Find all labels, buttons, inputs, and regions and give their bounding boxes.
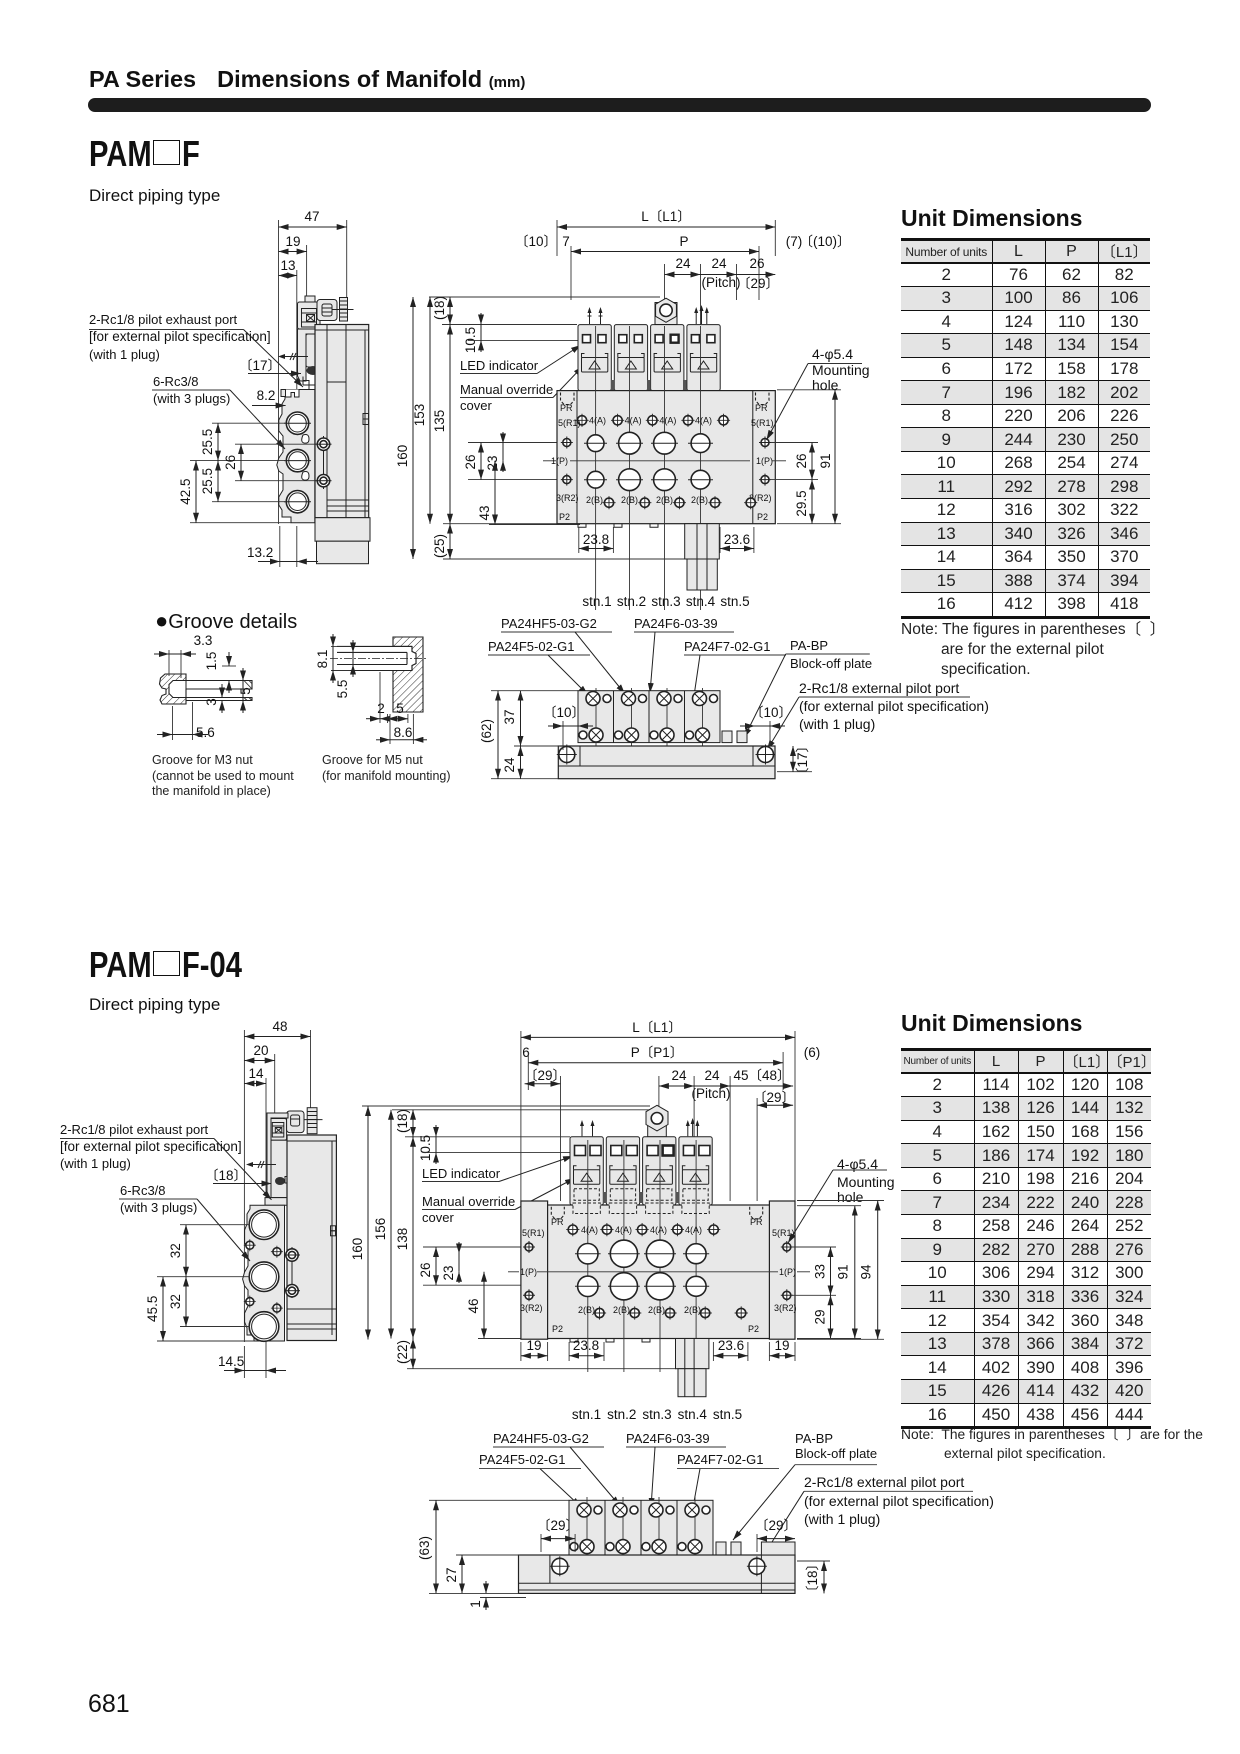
svg-text:4-φ5.4: 4-φ5.4 [812, 346, 853, 362]
svg-text:stn.2: stn.2 [617, 594, 646, 609]
svg-text:94: 94 [859, 1264, 874, 1280]
svg-text:1: 1 [468, 1600, 483, 1608]
svg-text:43: 43 [477, 505, 492, 520]
svg-text:1(P): 1(P) [779, 1267, 796, 1277]
endplate pilot holes top [525, 1243, 533, 1251]
svg-text:23: 23 [441, 1265, 456, 1280]
svg-text:19: 19 [285, 234, 300, 249]
svg-text:156: 156 [373, 1218, 388, 1241]
construction line x297 [296, 270, 298, 390]
svg-text:5(R1): 5(R1) [772, 1228, 795, 1238]
svg-text:Block-off plate: Block-off plate [790, 656, 872, 671]
dim 45.5 [162, 1277, 164, 1341]
svg-text:2-Rc1/8 pilot exhaust port: 2-Rc1/8 pilot exhaust port [89, 312, 238, 327]
svg-text:4(A): 4(A) [659, 416, 676, 426]
svg-text:160: 160 [350, 1238, 365, 1261]
svg-text:3(R2): 3(R2) [556, 493, 579, 503]
svg-text:32: 32 [168, 1294, 183, 1309]
svg-text:4(A): 4(A) [685, 1225, 702, 1235]
svg-text:47: 47 [304, 209, 319, 224]
right dim 91 [797, 1205, 861, 1207]
bottom tab (P2 stub) [676, 1339, 709, 1369]
svg-text:42.5: 42.5 [178, 478, 193, 504]
Unit Dimensions title 2 [901, 1010, 1082, 1037]
svg-text:5.5: 5.5 [335, 680, 350, 699]
svg-text:32: 32 [168, 1243, 183, 1258]
right dim 26 [771, 442, 818, 444]
svg-text:[for external pilot specificat: [for external pilot specification] [89, 329, 271, 344]
svg-text:PA24F5-02-G1: PA24F5-02-G1 [479, 1452, 565, 1467]
bottom small tabs on manifold underside [578, 524, 658, 528]
svg-text:2(B): 2(B) [621, 495, 638, 505]
svg-text:45〔48〕: 45〔48〕 [733, 1068, 790, 1083]
PR pockets [551, 1207, 564, 1219]
top screw row [568, 1225, 718, 1234]
svg-text:P2: P2 [748, 1324, 759, 1334]
solenoid cable gland [317, 300, 337, 321]
M5 bolt strips [337, 646, 412, 670]
gland threaded knob [307, 1108, 317, 1134]
svg-text:7: 7 [562, 234, 570, 249]
base rail [558, 746, 775, 779]
gland threaded knob [340, 298, 348, 322]
body screws [323, 436, 325, 489]
svg-text:4(A): 4(A) [695, 416, 712, 426]
bottom screw row [595, 1308, 746, 1317]
svg-text:stn.5: stn.5 [713, 1407, 742, 1422]
station screws top [586, 692, 718, 706]
manifold body [548, 1205, 770, 1339]
section 2 heading PAM□F-04 [89, 944, 256, 986]
svg-text:19: 19 [526, 1338, 541, 1353]
svg-text:5(R1): 5(R1) [558, 418, 581, 428]
svg-text:13.2: 13.2 [247, 545, 273, 560]
rail mount holes [552, 1558, 568, 1574]
port circle 2 [286, 449, 308, 471]
gland center line [304, 1119, 323, 1121]
valve unit 2 [606, 1137, 639, 1205]
inter-unit connector pins [603, 1192, 607, 1203]
svg-text:(18): (18) [395, 1109, 410, 1133]
svg-text:160: 160 [395, 445, 410, 468]
M5 groove: wall with hatch [393, 637, 423, 712]
station screws top [577, 1503, 710, 1517]
bottom tab (P2 stub) [685, 524, 720, 559]
svg-text:5: 5 [238, 687, 253, 695]
svg-text:33: 33 [813, 1264, 828, 1279]
main valve body [287, 1135, 336, 1341]
svg-text:(62): (62) [479, 719, 494, 743]
solenoid cable gland [287, 1111, 304, 1133]
svg-text:P2: P2 [757, 512, 768, 522]
svg-text:(63): (63) [417, 1536, 432, 1560]
svg-text:〔29〕: 〔29〕 [737, 276, 779, 291]
svg-text:48: 48 [272, 1019, 287, 1034]
svg-text:stn.3: stn.3 [642, 1407, 671, 1422]
svg-text:4(A): 4(A) [650, 1225, 667, 1235]
svg-text:23.8: 23.8 [573, 1338, 599, 1353]
body right clips [363, 414, 369, 420]
svg-text:29: 29 [813, 1309, 828, 1324]
svg-text:Manual override: Manual override [460, 382, 553, 397]
station centerlines [586, 1497, 588, 1558]
svg-text:stn.1: stn.1 [572, 1407, 601, 1422]
solenoid DIN connector block [305, 296, 315, 302]
svg-text:4(A): 4(A) [615, 1225, 632, 1235]
svg-text:PA24HF5-03-G2: PA24HF5-03-G2 [493, 1431, 589, 1446]
hex nut pedestal [648, 1124, 667, 1137]
svg-text:24: 24 [704, 1068, 720, 1083]
svg-text:PA24F7-02-G1: PA24F7-02-G1 [677, 1452, 763, 1467]
port circles top row [578, 1244, 598, 1264]
svg-text:23.8: 23.8 [583, 532, 609, 547]
svg-text:2(B): 2(B) [656, 495, 673, 505]
section 1 heading PAM□F [89, 133, 204, 175]
svg-text:stn.4: stn.4 [678, 1407, 708, 1422]
svg-text:stn.5: stn.5 [720, 594, 749, 609]
hex nut [656, 298, 677, 322]
block-off tabs [722, 731, 732, 743]
station centerlines [587, 1140, 589, 1372]
svg-text:45.5: 45.5 [145, 1296, 160, 1322]
left endplate [576, 391, 578, 524]
svg-text:23.6: 23.6 [718, 1338, 744, 1353]
svg-text:23.6: 23.6 [724, 532, 750, 547]
svg-text:1(P): 1(P) [551, 456, 568, 466]
svg-text:2(B): 2(B) [578, 1305, 595, 1315]
teardrop blobs [302, 435, 309, 444]
valve unit 1 [570, 1137, 603, 1205]
valve block [569, 1500, 713, 1555]
svg-text:LED indicator: LED indicator [422, 1166, 501, 1181]
svg-text:25.5: 25.5 [200, 468, 215, 494]
dim 25.5 bottom [217, 461, 219, 502]
mounting plate [267, 1113, 288, 1198]
svg-text:2(B): 2(B) [684, 1305, 701, 1315]
port circle 2 [249, 1262, 279, 1292]
svg-text:〔17〕: 〔17〕 [795, 739, 810, 781]
construction line x346.7 [346, 220, 348, 297]
construction line left [278, 220, 280, 524]
svg-text:3: 3 [204, 698, 219, 706]
manifold small screws [246, 1241, 281, 1312]
svg-text:〔10〕: 〔10〕 [750, 705, 792, 720]
svg-text:PA24F6-03-39: PA24F6-03-39 [626, 1431, 710, 1446]
svg-text:Block-off plate: Block-off plate [795, 1446, 877, 1461]
valve unit 2 [614, 325, 647, 404]
hex nut pedestal [655, 303, 677, 325]
svg-text:135: 135 [432, 410, 447, 433]
svg-text:Mounting: Mounting [837, 1174, 895, 1190]
svg-text:hole: hole [837, 1189, 864, 1205]
valve unit 4 [687, 325, 720, 404]
svg-text:PR: PR [755, 403, 768, 413]
station centerlines [595, 326, 597, 610]
rail mount holes [559, 747, 575, 763]
svg-text:stn.1: stn.1 [582, 594, 611, 609]
svg-text:PR: PR [750, 1217, 763, 1227]
table 1 [901, 238, 1150, 619]
svg-text:6-Rc3/8: 6-Rc3/8 [120, 1183, 166, 1198]
hex nut [646, 1105, 668, 1131]
port circle 3 [249, 1312, 279, 1342]
dim 42.5 [195, 461, 197, 523]
svg-text:2-Rc1/8 pilot exhaust port: 2-Rc1/8 pilot exhaust port [60, 1122, 209, 1137]
station screws bottom [579, 728, 710, 742]
svg-text:〔10〕: 〔10〕 [515, 234, 557, 249]
bottom screw row [604, 498, 755, 507]
body right clips [331, 1226, 336, 1231]
svg-text:25.5: 25.5 [200, 429, 215, 455]
svg-text:〔29〕: 〔29〕 [524, 1068, 566, 1083]
port circle 1 [249, 1210, 279, 1240]
manifold body [557, 391, 775, 524]
svg-text:(for external pilot specificat: (for external pilot specification) [804, 1493, 994, 1509]
svg-text:24: 24 [502, 757, 517, 773]
pilot valve body [306, 334, 327, 367]
pilot exhaust arrow [285, 353, 308, 360]
svg-text:27: 27 [444, 1567, 459, 1582]
svg-text:stn.3: stn.3 [651, 594, 680, 609]
svg-text:(18): (18) [432, 296, 447, 320]
black header bar [88, 98, 1151, 112]
bottom tab [315, 518, 370, 542]
svg-text:3(R2): 3(R2) [520, 1303, 543, 1313]
svg-text:〔29〕: 〔29〕 [755, 1518, 797, 1533]
gland center line [332, 309, 354, 311]
svg-text:2(B): 2(B) [648, 1305, 665, 1315]
svg-text:14.5: 14.5 [218, 1354, 244, 1369]
svg-text:23: 23 [485, 455, 500, 470]
svg-text:2: 2 [377, 701, 385, 716]
construction lines [243, 1030, 245, 1342]
svg-text:2(B): 2(B) [586, 495, 603, 505]
svg-text:4(A): 4(A) [625, 416, 642, 426]
svg-text:5: 5 [396, 701, 404, 716]
svg-text:8.1: 8.1 [315, 650, 330, 669]
M5 center line [330, 658, 428, 660]
svg-text:5(R1): 5(R1) [522, 1228, 545, 1238]
port circle 3 [286, 491, 308, 513]
station screws bottom [570, 1540, 702, 1554]
M3 strip hatch right ends [244, 681, 252, 701]
svg-text:(with 3 plugs): (with 3 plugs) [153, 391, 230, 406]
svg-text:〔18〕: 〔18〕 [205, 1168, 247, 1183]
valve block [578, 691, 720, 743]
right dim 91 [777, 389, 841, 391]
svg-text:4(A): 4(A) [581, 1225, 598, 1235]
svg-text:P〔P1〕: P〔P1〕 [631, 1045, 684, 1060]
dim 32 bottom [185, 1277, 187, 1327]
svg-text:26: 26 [794, 453, 809, 468]
top screw row [577, 416, 728, 425]
svg-text:(with 3 plugs): (with 3 plugs) [120, 1200, 197, 1215]
svg-text:(25): (25) [432, 534, 447, 558]
svg-text:29.5: 29.5 [794, 490, 809, 516]
svg-text:stn.2: stn.2 [607, 1407, 636, 1422]
pilot pins unit4 [696, 307, 707, 324]
svg-text:24: 24 [671, 1068, 687, 1083]
svg-text:〔29〕: 〔29〕 [537, 1518, 579, 1533]
port circle 1 [286, 412, 308, 434]
solenoid DIN connector block [274, 1114, 283, 1119]
svg-text:(Pitch): (Pitch) [701, 275, 740, 290]
svg-text:10.5: 10.5 [418, 1135, 433, 1161]
svg-text:cover: cover [422, 1210, 454, 1225]
Unit Dimensions title 1 [901, 205, 1082, 232]
svg-text:(with 1 plug): (with 1 plug) [799, 716, 875, 732]
svg-text:(with 1 plug): (with 1 plug) [804, 1511, 880, 1527]
body base plates [327, 499, 369, 501]
right dim 94 [797, 1200, 884, 1202]
table 2 [901, 1048, 1151, 1429]
svg-text:L〔L1〕: L〔L1〕 [632, 1020, 682, 1035]
pilot exhaust arrow [253, 1161, 276, 1168]
svg-text:3(R2): 3(R2) [774, 1303, 797, 1313]
svg-text:2-Rc1/8 external pilot port: 2-Rc1/8 external pilot port [804, 1474, 964, 1490]
M3 groove: left rail lip piece [160, 674, 187, 704]
svg-text:91: 91 [836, 1264, 851, 1279]
left dim extension lines [212, 422, 286, 424]
port circles bottom row [578, 1276, 598, 1296]
svg-text:〔10〕: 〔10〕 [543, 705, 585, 720]
groove caption M3 [152, 753, 294, 800]
manifold groove cut top [286, 390, 300, 398]
valve unit 4 [679, 1137, 712, 1205]
svg-text:[for external pilot specificat: [for external pilot specification] [60, 1139, 242, 1154]
svg-text:3.3: 3.3 [194, 633, 213, 648]
svg-text:37: 37 [502, 709, 517, 724]
svg-text:PR: PR [560, 403, 573, 413]
endplate pilot holes bottom [525, 1291, 533, 1299]
svg-text:〔(10)〕: 〔(10)〕 [799, 234, 850, 249]
svg-text:46: 46 [466, 1298, 481, 1313]
valve unit 3 [651, 325, 684, 404]
svg-text:6-Rc3/8: 6-Rc3/8 [153, 374, 199, 389]
adapter step [265, 1198, 336, 1206]
endplate pilot holes bottom [563, 476, 571, 484]
svg-text:8.2: 8.2 [257, 388, 276, 403]
endplate pilot holes top [563, 439, 571, 447]
svg-text:1.5: 1.5 [204, 652, 219, 671]
inter-unit connector pins [611, 380, 615, 391]
svg-text:P: P [679, 234, 688, 249]
body screws [291, 1247, 293, 1298]
manifold cross-section outline [243, 1205, 285, 1341]
svg-text:1(P): 1(P) [520, 1267, 537, 1277]
pilot pins unit4 [688, 1120, 698, 1136]
svg-text:PA24F5-02-G1: PA24F5-02-G1 [488, 639, 574, 654]
svg-text:26: 26 [418, 1262, 433, 1277]
bottom small tabs on manifold underside [570, 1339, 650, 1343]
svg-text:Manual override: Manual override [422, 1194, 515, 1209]
svg-text:(with 1 plug): (with 1 plug) [60, 1156, 131, 1171]
pilot port square on manifold top [303, 377, 315, 390]
svg-text:(Pitch): (Pitch) [691, 1086, 730, 1101]
svg-text:PR: PR [551, 1217, 564, 1227]
pilot pins unit1 [590, 309, 601, 324]
svg-text:P2: P2 [559, 512, 570, 522]
page number [88, 1690, 130, 1719]
svg-text:(for external pilot specificat: (for external pilot specification) [799, 698, 989, 714]
svg-text:91: 91 [818, 453, 833, 468]
P centerline [508, 1271, 519, 1273]
construction line x306.6 [306, 245, 308, 303]
dim 32 top [185, 1225, 187, 1277]
svg-text:5(R1): 5(R1) [751, 418, 774, 428]
svg-text:8.6: 8.6 [394, 725, 413, 740]
pilot valve body [271, 1140, 287, 1197]
dim 26 left [240, 444, 242, 481]
right dim 29.5 [811, 480, 813, 524]
svg-text:L〔L1〕: L〔L1〕 [641, 209, 691, 224]
svg-text:24: 24 [711, 256, 727, 271]
pilot pins unit1 [582, 1122, 593, 1136]
right end block [769, 1201, 795, 1339]
dim 25.5 top [217, 423, 219, 460]
svg-text:PA24F6-03-39: PA24F6-03-39 [634, 616, 718, 631]
pilot column [298, 329, 319, 381]
svg-text:〔18〕: 〔18〕 [805, 1557, 820, 1599]
svg-text:20: 20 [253, 1043, 268, 1058]
right endplate [752, 391, 754, 524]
right dim 29 [830, 1295, 832, 1338]
station centerlines [595, 688, 597, 748]
port circles bottom row [587, 471, 604, 488]
P centerline [543, 460, 556, 462]
svg-text:(with 1 plug): (with 1 plug) [89, 347, 160, 362]
svg-text:24: 24 [675, 256, 691, 271]
svg-text:19: 19 [774, 1338, 789, 1353]
svg-text:5.6: 5.6 [196, 725, 215, 740]
port circles top row [587, 435, 604, 452]
svg-text:13: 13 [280, 258, 295, 273]
svg-text:PA24F7-02-G1: PA24F7-02-G1 [684, 639, 770, 654]
svg-text:4(A): 4(A) [589, 416, 606, 426]
manual override knob [275, 1177, 285, 1185]
svg-text:26: 26 [223, 455, 238, 470]
base rail [519, 1555, 796, 1593]
svg-text:153: 153 [412, 404, 427, 427]
note 2 [901, 1426, 1203, 1463]
main valve body [315, 325, 369, 518]
svg-text:P2: P2 [552, 1324, 563, 1334]
Groove details heading [155, 608, 297, 634]
valve unit 1 [578, 325, 611, 404]
left end block [521, 1201, 548, 1339]
body base plates [287, 1308, 336, 1310]
svg-text:26: 26 [463, 454, 478, 469]
left dim extension lines [180, 1224, 250, 1226]
block-off tabs [716, 1542, 726, 1555]
M3 groove: top strip [186, 681, 252, 701]
svg-text:stn.4: stn.4 [686, 594, 716, 609]
page header title [89, 66, 525, 93]
svg-text:14: 14 [248, 1066, 264, 1081]
right dim 33 [792, 1246, 836, 1248]
manifold cross-section outline [277, 390, 315, 523]
svg-text:(6): (6) [804, 1045, 821, 1060]
svg-text:2-Rc1/8 external pilot port: 2-Rc1/8 external pilot port [799, 680, 959, 696]
svg-text:138: 138 [395, 1228, 410, 1251]
svg-text:PA-BP: PA-BP [790, 638, 828, 653]
note 1 [901, 620, 1165, 680]
manual override knob [307, 366, 320, 375]
svg-text:1(P): 1(P) [756, 456, 773, 466]
svg-text:Mounting: Mounting [812, 362, 870, 378]
svg-text:PA-BP: PA-BP [795, 1431, 833, 1446]
groove caption M5 [322, 753, 451, 784]
